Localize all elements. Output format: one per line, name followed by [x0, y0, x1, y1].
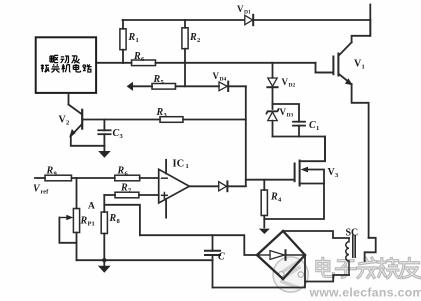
wire top rail	[123, 19, 244, 21]
diode VD1	[245, 15, 253, 25]
svg-text:R: R	[117, 166, 125, 177]
svg-text:R: R	[153, 74, 161, 85]
wire R3 row	[83, 119, 160, 121]
wire box bottom to V2	[68, 93, 70, 105]
svg-text:1: 1	[316, 125, 319, 132]
svg-text:R: R	[270, 192, 278, 203]
wire bridge right corner branch to SC winding bottom	[305, 275, 349, 282]
op-amp IC1	[159, 160, 190, 218]
svg-text:6: 6	[125, 171, 129, 178]
wire V1 emitter jog through SC	[365, 238, 376, 261]
glyph 关	[51, 64, 59, 72]
resistor R8	[101, 212, 107, 234]
svg-text:V: V	[280, 107, 287, 117]
wire V3 source row	[264, 184, 324, 220]
svg-text:D4: D4	[220, 77, 227, 83]
svg-text:4: 4	[278, 197, 282, 204]
capacitor C1	[273, 104, 306, 137]
wire column VD4 to output rail	[245, 86, 247, 186]
resistor R1	[120, 20, 126, 63]
SC core bars	[352, 236, 354, 258]
svg-text:5: 5	[161, 79, 165, 86]
svg-text:D1: D1	[244, 10, 251, 16]
svg-text:8: 8	[117, 218, 121, 225]
wire Vref / minus input row	[35, 177, 45, 179]
diode at op-amp output	[219, 181, 228, 191]
diode VD2	[267, 63, 277, 104]
glyph 及	[72, 56, 80, 63]
svg-text:3: 3	[164, 112, 168, 119]
resistor R6	[132, 60, 156, 66]
transistor V2	[69, 105, 105, 146]
wire feedback row to bridge left corner	[140, 235, 257, 255]
svg-text:7: 7	[128, 188, 132, 195]
wire VD3/C1 bottom rail to V3 drain	[273, 137, 326, 162]
svg-text:P1: P1	[88, 221, 95, 228]
resistor R9	[45, 175, 72, 181]
svg-text:ref: ref	[41, 189, 50, 196]
watermark logo circle	[273, 257, 421, 300]
resistor R5	[152, 84, 176, 90]
watermark text 电子发烧友	[317, 258, 420, 278]
svg-text:2: 2	[197, 37, 200, 44]
svg-text:C: C	[309, 120, 316, 131]
ground below C3	[98, 146, 111, 158]
glyph 机	[62, 64, 71, 72]
svg-text:R: R	[189, 32, 197, 43]
box text 驱动及 / 软关机电路 drawn glyphs	[41, 55, 92, 72]
resistor R2	[182, 20, 188, 86]
transistor V3 MOSFET	[295, 137, 325, 186]
resistor R7	[115, 192, 139, 198]
wire R5/VD4 row	[130, 85, 152, 87]
glyph 路	[83, 64, 92, 72]
wire jog to gate rail	[246, 179, 295, 181]
resistor R3	[160, 117, 183, 123]
svg-text:9: 9	[54, 171, 58, 178]
svg-text:C: C	[113, 128, 120, 139]
svg-text:R: R	[80, 216, 88, 227]
wire output rail with diode	[189, 185, 218, 187]
resistor R4	[261, 180, 267, 228]
svg-text:V: V	[282, 77, 289, 87]
svg-text:R: R	[156, 107, 164, 118]
svg-text:A: A	[88, 202, 95, 212]
glyph 软	[41, 64, 50, 72]
wire bottom rail	[213, 255, 306, 288]
svg-text:1: 1	[362, 64, 365, 71]
svg-text:1: 1	[186, 163, 189, 170]
diode VD4	[219, 82, 246, 91]
zener VD3	[267, 104, 279, 137]
svg-text:D2: D2	[289, 83, 296, 89]
potentiometer RP1	[59, 178, 79, 260]
arrow: current direction into R5	[127, 82, 133, 91]
svg-text:3: 3	[120, 133, 124, 140]
wire gate jog	[316, 63, 333, 73]
svg-text:IC: IC	[173, 159, 185, 170]
svg-text:www.elecfans.com: www.elecfans.com	[309, 286, 421, 300]
bridge rectifier	[257, 231, 305, 279]
svg-text:C: C	[218, 252, 225, 263]
capacitor C	[205, 235, 220, 287]
svg-text:D3: D3	[287, 113, 294, 119]
glyph 驱	[50, 55, 58, 62]
wire node A branch to feedback	[104, 205, 140, 235]
svg-text:V: V	[237, 4, 244, 14]
node A column / R8	[103, 195, 105, 212]
block: drive & soft shut-off circuit (驱动及软关机电路)	[36, 37, 96, 93]
svg-text:R: R	[128, 32, 136, 43]
svg-text:R: R	[133, 51, 141, 62]
svg-text:SC: SC	[346, 228, 359, 239]
svg-text:3: 3	[335, 172, 339, 179]
glyph 电	[73, 64, 80, 72]
glyph 动	[61, 56, 69, 63]
ground below R8	[98, 260, 111, 273]
svg-text:R: R	[109, 213, 117, 224]
wire right top stub	[369, 5, 371, 36]
arrow: connection below R4 pointing down	[259, 229, 270, 234]
transistor V1 IGBT	[316, 20, 371, 238]
wire R6 row from box to V1 gate jog	[96, 62, 131, 64]
junction dot at R8/ground rail	[102, 258, 106, 262]
svg-text:V: V	[213, 71, 220, 81]
resistor R6b	[115, 175, 140, 181]
wire plus input row R7	[104, 194, 115, 196]
svg-text:R: R	[46, 166, 54, 177]
svg-text:1: 1	[136, 37, 139, 44]
svg-text:R: R	[120, 183, 128, 194]
wire ground rail	[77, 259, 213, 261]
capacitor C3	[98, 120, 110, 146]
diode inside bridge	[259, 250, 303, 260]
wire bridge top corner to SC winding top	[283, 231, 349, 238]
svg-text:2: 2	[66, 120, 69, 127]
inductor SC winding	[346, 238, 349, 275]
